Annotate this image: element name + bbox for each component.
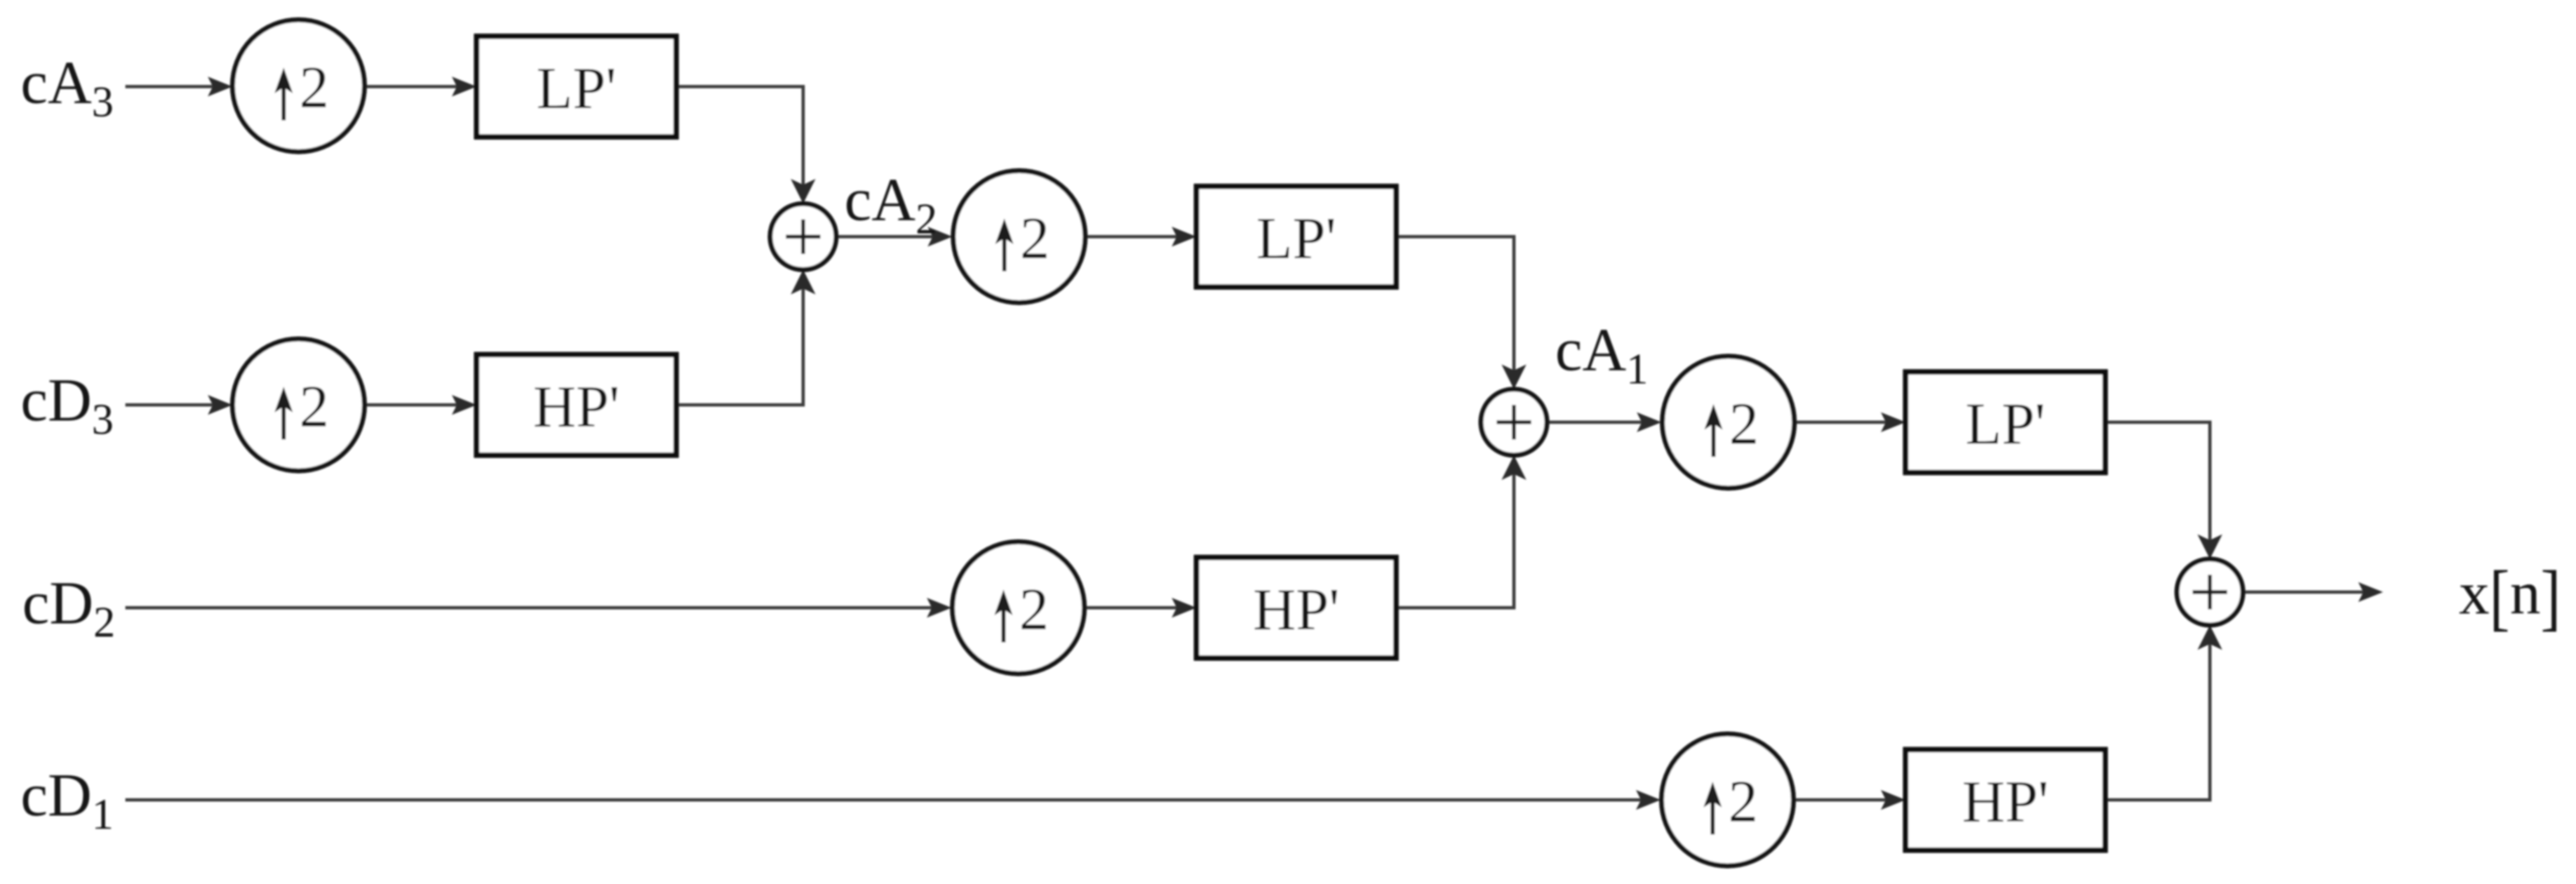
svg-text:n: n	[2510, 560, 2541, 628]
svg-text:2: 2	[1728, 769, 1758, 835]
svg-text:2: 2	[1729, 391, 1759, 457]
svg-text:[: [	[2489, 555, 2510, 638]
svg-text:HP': HP'	[1253, 576, 1339, 642]
svg-text:2: 2	[299, 54, 329, 120]
svg-text:2: 2	[1019, 576, 1049, 642]
svg-text:LP': LP'	[537, 55, 617, 121]
svg-text:2: 2	[299, 374, 329, 440]
svg-text:HP': HP'	[533, 374, 619, 440]
svg-text:LP': LP'	[1257, 205, 1337, 271]
svg-text:HP': HP'	[1962, 769, 2048, 835]
svg-text:x: x	[2459, 560, 2489, 628]
svg-text:]: ]	[2541, 555, 2561, 638]
svg-text:LP': LP'	[1966, 391, 2046, 457]
svg-text:2: 2	[1020, 205, 1050, 271]
